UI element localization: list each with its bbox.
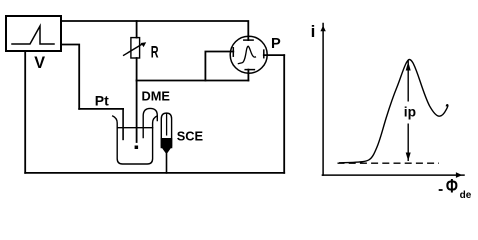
meter P circle xyxy=(230,36,267,73)
voltage source V (ramp generator box) xyxy=(6,16,61,51)
V ramp waveform xyxy=(12,26,54,44)
dashed baseline xyxy=(338,162,440,164)
svg-text:Φ: Φ xyxy=(446,176,458,197)
label -Phi de xyxy=(439,189,443,191)
wire V lower output lead xyxy=(62,45,79,109)
wire V left lead down xyxy=(24,52,26,173)
electrode Pt (vertical into cell) xyxy=(122,109,124,139)
x axis arrowhead xyxy=(456,172,462,178)
svg-text:ip: ip xyxy=(404,105,416,120)
svg-text:DME: DME xyxy=(142,88,171,103)
electrode SCE tube xyxy=(161,113,171,147)
wire SCE to bottom rail xyxy=(166,154,168,173)
electrode DME capillary xyxy=(136,81,138,143)
wire right rail xyxy=(283,55,285,173)
SCE mercury/calomel fill xyxy=(161,138,173,154)
svg-text:de: de xyxy=(460,190,472,201)
P terminal west bar xyxy=(232,48,234,56)
wire top rail to R xyxy=(136,21,138,38)
wire bottom rail xyxy=(25,172,284,174)
SCE inner contact wire xyxy=(166,114,168,135)
resistor R (variable) xyxy=(131,38,140,58)
svg-text:V: V xyxy=(34,54,45,72)
arrow of variable resistor R xyxy=(124,45,142,56)
svg-text:i: i xyxy=(311,22,316,41)
P terminal south wire and bar xyxy=(247,70,249,81)
ip measurement arrow (double headed) xyxy=(407,61,409,162)
P peak waveform xyxy=(238,46,255,63)
graph axes xyxy=(322,24,464,176)
mercury drop of DME xyxy=(135,146,139,150)
wire top rail from V to P xyxy=(62,21,248,40)
P terminal north bar xyxy=(244,39,253,41)
cell beaker xyxy=(113,116,157,164)
x axis potential xyxy=(322,174,464,176)
y axis arrowhead xyxy=(320,26,325,32)
wire Pt horizontal lead xyxy=(79,108,123,110)
salt bridge tube to SCE xyxy=(143,108,157,137)
polarogram peak curve xyxy=(339,59,448,162)
P terminal east bar and wire xyxy=(263,50,265,58)
svg-text:Pt: Pt xyxy=(95,93,109,109)
wire junction rail to P xyxy=(137,80,249,82)
svg-text:P: P xyxy=(271,36,281,52)
y axis i xyxy=(322,24,324,176)
wire R bottom to junction xyxy=(136,58,138,81)
solution level line xyxy=(117,127,152,129)
svg-text:R: R xyxy=(151,43,159,61)
wire up to P left terminal xyxy=(205,52,233,81)
svg-text:SCE: SCE xyxy=(177,128,204,143)
